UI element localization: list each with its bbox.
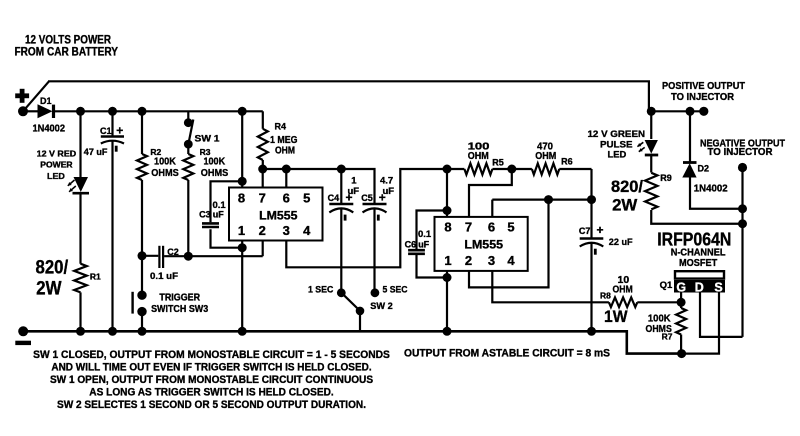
resistor R8: [609, 298, 681, 308]
label C5 + 4.7 uF: [361, 176, 394, 205]
wire C1 to ground: [111, 142, 113, 332]
wire C7 down from timing node: [590, 200, 592, 239]
svg-text:2W: 2W: [36, 277, 62, 299]
resistor R1: [74, 264, 87, 293]
node U2 VCC junction (R5 left): [443, 165, 452, 174]
svg-text:FROM CAR BATTERY: FROM CAR BATTERY: [15, 46, 119, 58]
svg-text:8: 8: [238, 191, 245, 206]
node R2/C2/SW3 junction: [138, 251, 147, 260]
node positive rail junction: [647, 107, 656, 116]
svg-text:C7: C7: [579, 226, 591, 236]
svg-text:R7: R7: [662, 331, 673, 341]
svg-text:LED: LED: [608, 150, 627, 161]
node D2 top junction: [686, 107, 695, 116]
wire U2 pin 1 to ground: [446, 278, 448, 332]
node positive output terminal: [699, 107, 708, 116]
label 100 OHM R5: [468, 140, 504, 167]
wire pin 1 to ground: [241, 248, 243, 332]
transistor Q1 IRFP064N package: [674, 271, 725, 294]
svg-text:8: 8: [444, 220, 451, 235]
label C7 +: [579, 223, 604, 237]
ground minus bar: [15, 341, 31, 345]
resistor R4: [258, 129, 268, 160]
wire pin1 stub U2: [446, 271, 448, 278]
node pin 6 junction: [282, 165, 291, 174]
label 10 OHM R8: [600, 274, 633, 300]
wire C4 to 1 SEC contact: [340, 209, 342, 293]
svg-text:4: 4: [303, 223, 311, 238]
svg-text:SW 2 SELECTES 1 SECOND OR 5 SE: SW 2 SELECTES 1 SECOND OR 5 SECOND OUTPU…: [57, 399, 366, 411]
svg-text:C5: C5: [361, 193, 373, 203]
wire R4 to pin 7 node: [262, 160, 264, 169]
label U1 pin numbers 1 2 3 4: [238, 223, 311, 238]
node battery positive terminal (+): [15, 89, 29, 103]
svg-text:+: +: [116, 124, 123, 138]
svg-text:SWITCH SW3: SWITCH SW3: [151, 304, 208, 315]
node C7 ground junction: [587, 327, 596, 336]
label R4 1 MEG OHM: [270, 122, 298, 157]
label POSITIVE OUTPUT TO INJECTOR: [662, 81, 745, 103]
node input junction: [18, 106, 28, 116]
wire SW1 to R3: [187, 144, 189, 154]
switch SW1: [184, 118, 193, 148]
wire positive output stub: [649, 110, 704, 112]
svg-text:820/: 820/: [611, 178, 643, 196]
svg-text:1: 1: [351, 176, 357, 187]
label U2 pin numbers 1 2 3 4: [444, 253, 515, 268]
node pin8 VCC junction: [238, 107, 247, 116]
node pin 7 junction: [258, 165, 267, 174]
wire R6 down to timing node: [590, 169, 592, 200]
op IC U1 LM555 box: [229, 188, 323, 241]
wire SW3 to ground: [141, 312, 143, 331]
wire main +12V horizontal: [23, 110, 38, 112]
svg-text:uF: uF: [418, 239, 429, 249]
node battery negative terminal: [18, 326, 28, 336]
svg-text:C6: C6: [405, 239, 417, 249]
node R7/source ground junction: [677, 349, 686, 358]
wire C3 bottom loop to pin 1: [211, 229, 243, 247]
svg-text:uF: uF: [348, 186, 360, 197]
node R1 ground junction: [76, 327, 85, 336]
resistor R5: [447, 163, 512, 174]
node pin 1 junction U2: [443, 273, 452, 282]
wire red LED branch down: [79, 111, 81, 177]
wire C2 left lead: [142, 255, 158, 257]
LED red power (12V RED POWER LED): [68, 177, 89, 193]
node R9/negative junction: [738, 219, 747, 228]
svg-text:6: 6: [283, 191, 290, 206]
wire LED to R9: [650, 156, 652, 173]
wire C6 bottom loop to pin 1 of U2: [417, 255, 448, 278]
svg-text:LM555: LM555: [464, 238, 503, 252]
svg-text:TO INJECTOR: TO INJECTOR: [671, 92, 735, 103]
wire negative output line: [741, 168, 743, 337]
svg-text:uF: uF: [383, 186, 395, 197]
svg-text:2: 2: [259, 223, 266, 238]
capacitor C1: [101, 137, 124, 152]
svg-text:R1: R1: [90, 272, 101, 282]
svg-text:OHM: OHM: [275, 144, 295, 156]
svg-text:3: 3: [283, 223, 290, 238]
svg-text:4.7: 4.7: [380, 176, 393, 187]
wire R2 to C2 node: [141, 180, 143, 256]
node C7 top junction: [587, 195, 596, 204]
svg-text:0.1 uF: 0.1 uF: [150, 271, 178, 282]
wire C7 to ground: [590, 243, 592, 331]
svg-text:1 SEC: 1 SEC: [308, 285, 333, 296]
wire source to ground: [682, 292, 719, 354]
wire C6 top loop: [417, 211, 448, 250]
LED green pulse (12 V GREEN PULSE LED): [637, 140, 658, 155]
label U2 pin numbers 8 7 6 5: [444, 220, 514, 235]
svg-text:100K: 100K: [154, 155, 176, 167]
node pin 1 junction U1: [238, 243, 247, 252]
svg-text:6: 6: [488, 220, 495, 235]
label NEGATIVE OUTPUT TO INJECTOR: [700, 138, 785, 158]
node C4 top junction: [337, 165, 346, 174]
wire VCC down to pin 8 of U1: [241, 111, 243, 187]
diode D2: [682, 163, 696, 178]
svg-text:IRFP064N: IRFP064N: [657, 228, 731, 249]
wire R4 branch from rail: [262, 111, 264, 129]
label SW notes text block: [33, 349, 390, 411]
node SW3 ground junction: [138, 327, 147, 336]
label 12 V GREEN PULSE LED: [588, 129, 646, 161]
wire diagonal from + node to top rail: [23, 81, 49, 111]
svg-text:Q1: Q1: [660, 280, 673, 291]
svg-text:5: 5: [507, 220, 514, 235]
svg-text:R4: R4: [275, 122, 287, 132]
svg-text:SW 1: SW 1: [195, 134, 221, 145]
wire C4 top lead: [340, 169, 342, 204]
wire pin 2 of U2 loop to pin 6 node: [469, 200, 549, 288]
node pin 8 / C3 junction: [238, 177, 247, 186]
node LED branch junction: [76, 107, 85, 116]
svg-text:D1: D1: [40, 96, 52, 106]
wire pin 1 of U1 stub: [241, 241, 243, 248]
label 820/ 2W (R9): [611, 178, 643, 215]
wire LED to R1: [79, 195, 81, 264]
wire green LED branch down: [650, 111, 652, 139]
svg-text:TRIGGER: TRIGGER: [159, 292, 200, 303]
node negative output terminal: [738, 163, 747, 172]
wire pin 6 of U1 up: [285, 169, 287, 188]
svg-text:1: 1: [444, 253, 451, 268]
svg-text:R6: R6: [561, 156, 573, 166]
capacitor C7: [580, 239, 604, 255]
svg-text:820/: 820/: [36, 257, 69, 279]
svg-text:12 VOLTS POWER: 12 VOLTS POWER: [25, 35, 112, 47]
node C1 branch junction: [108, 107, 117, 116]
svg-text:uF: uF: [213, 210, 224, 220]
svg-text:OHMS: OHMS: [151, 167, 179, 179]
label C1 +: [100, 124, 123, 138]
svg-text:12 V GREEN: 12 V GREEN: [588, 129, 646, 140]
svg-text:POWER: POWER: [40, 160, 72, 170]
wire pin 7 of U2 from R5/R6 junction: [469, 169, 512, 217]
capacitor C3: [202, 223, 219, 227]
wire C2 right to pin2 node: [164, 255, 263, 257]
wire R2 branch down: [141, 111, 143, 154]
svg-text:R8: R8: [600, 290, 611, 300]
wire +12V top rail: [48, 81, 649, 111]
wire D2 to negative line: [690, 177, 743, 209]
wire R9 to negative line: [651, 210, 742, 224]
svg-text:LED: LED: [47, 171, 65, 181]
capacitor C5: [363, 204, 387, 221]
switch SW 2 (1 SEC / 5 SEC select): [337, 288, 379, 315]
label C4 + 1 uF: [328, 176, 360, 205]
wire C3 top loop: [211, 181, 243, 222]
svg-text:1N4002: 1N4002: [33, 122, 66, 134]
svg-text:47 uF: 47 uF: [84, 147, 108, 157]
wire pin 7 of U1 up: [262, 169, 264, 188]
svg-text:SW 2: SW 2: [370, 301, 393, 312]
wire SW1 branch down from rail: [187, 111, 189, 122]
node C1 ground junction: [108, 327, 117, 336]
wire R7 to ground node: [680, 335, 682, 354]
label 0.1 C6 uF: [405, 229, 432, 249]
node pin6 link junction: [544, 195, 553, 204]
svg-text:OHM: OHM: [535, 150, 556, 162]
wire R3 to trigger node: [187, 180, 189, 256]
switch SW3 (trigger pushbutton): [133, 291, 147, 317]
wire gate stub: [680, 292, 682, 302]
resistor R7: [676, 308, 686, 335]
label 100K OHMS R7: [646, 313, 673, 342]
svg-text:2W: 2W: [612, 197, 638, 215]
wire gate to R7: [680, 302, 682, 308]
svg-text:POSITIVE OUTPUT: POSITIVE OUTPUT: [662, 81, 745, 92]
wire ground rail: [23, 331, 681, 353]
node R2 branch junction: [138, 107, 147, 116]
wire main +12V bus after D1: [54, 110, 263, 112]
svg-text:1W: 1W: [604, 307, 628, 326]
svg-text:7: 7: [465, 220, 472, 235]
svg-text:C4: C4: [328, 193, 340, 203]
wire C1 branch down: [111, 111, 113, 136]
label 0.1 C3 uF: [199, 200, 226, 219]
svg-text:SW 1 OPEN, OUTPUT FROM MONOSTA: SW 1 OPEN, OUTPUT FROM MONOSTABLE CIRCUI…: [50, 374, 373, 386]
svg-text:R9: R9: [660, 173, 672, 183]
svg-text:AS LONG AS TRIGGER SWITCH IS H: AS LONG AS TRIGGER SWITCH IS HELD CLOSED…: [89, 386, 333, 398]
label IRFP064N N-CHANNEL MOSFET: [657, 228, 731, 269]
svg-text:C3: C3: [199, 210, 211, 220]
resistor R9: [645, 173, 657, 210]
node D2/negative junction: [738, 204, 747, 213]
svg-text:5 SEC: 5 SEC: [383, 285, 408, 296]
label 820/ 2W (R1): [36, 257, 69, 300]
resistor R3: [183, 154, 193, 180]
wire pin 3 of U2 output to R8: [492, 271, 609, 302]
node R5/R6 junction: [507, 165, 516, 174]
wire timing node to pin6 link: [549, 199, 592, 201]
wire D2 branch down: [689, 111, 691, 162]
label TRIGGER SWITCH SW3: [151, 292, 208, 315]
node R3 bottom junction: [184, 252, 193, 261]
svg-text:R5: R5: [492, 157, 504, 167]
svg-text:4: 4: [507, 253, 515, 268]
svg-text:5: 5: [303, 191, 310, 206]
svg-text:AND WILL TIME OUT EVEN IF TRIG: AND WILL TIME OUT EVEN IF TRIGGER SWITCH…: [51, 362, 371, 374]
svg-text:C1: C1: [100, 126, 112, 136]
node pin8/C6 junction U2: [443, 206, 452, 215]
label 470 OHM R6: [535, 141, 572, 167]
capacitor C6: [408, 250, 425, 254]
label 12 VOLTS POWER FROM CAR BATTERY: [15, 35, 119, 59]
node gate junction: [677, 298, 686, 307]
svg-text:12 V RED: 12 V RED: [37, 148, 77, 158]
label U1 pin numbers 8 7 6 5: [238, 191, 311, 206]
svg-text:0.1: 0.1: [418, 229, 432, 240]
svg-text:3: 3: [488, 253, 495, 268]
svg-text:100K: 100K: [204, 155, 226, 167]
capacitor C2: [159, 246, 163, 268]
wire C5 to 5 SEC contact: [373, 209, 375, 293]
svg-text:SW 1 CLOSED, OUTPUT FROM MONOS: SW 1 CLOSED, OUTPUT FROM MONOSTABLE CIRC…: [33, 349, 390, 361]
svg-text:LM555: LM555: [259, 208, 298, 222]
svg-text:D2: D2: [698, 163, 710, 173]
wire pin 3 output of U1 to second stage VCC: [286, 169, 447, 267]
label 12 V RED POWER LED: [37, 148, 77, 181]
resistor R2: [137, 154, 147, 180]
svg-text:7: 7: [259, 191, 266, 206]
wire pin 6 of U2 up to timing node: [491, 200, 493, 217]
capacitor C4: [329, 204, 353, 221]
wire trigger line up to pin 2: [262, 241, 264, 257]
svg-text:2: 2: [465, 253, 472, 268]
wire R1 to ground: [79, 292, 81, 331]
svg-text:1N4002: 1N4002: [694, 182, 728, 194]
label R3 100K OHMS: [200, 147, 229, 179]
wire drain to negative line: [700, 292, 743, 337]
wire timing bus R4/pin7/pin6/C4/C5: [263, 169, 375, 204]
svg-text:TO INJECTOR: TO INJECTOR: [708, 147, 774, 158]
op IC U2 LM555 box: [435, 217, 528, 271]
svg-text:OHM: OHM: [468, 150, 489, 162]
wire U2 VCC down to pin 8: [446, 169, 448, 217]
svg-text:OHMS: OHMS: [201, 167, 229, 179]
node U1 pin1 ground junction: [238, 327, 247, 336]
svg-text:MOSFET: MOSFET: [679, 258, 717, 269]
svg-text:OUTPUT FROM ASTABLE CIRCUIT =: OUTPUT FROM ASTABLE CIRCUIT = 8 mS: [404, 348, 610, 360]
diode D1: [38, 104, 54, 118]
svg-text:1: 1: [238, 223, 245, 238]
wire SW2 to ground: [359, 311, 361, 331]
svg-text:OHM: OHM: [613, 283, 633, 295]
svg-text:+: +: [597, 223, 604, 237]
resistor R6: [512, 163, 592, 174]
svg-text:22 uF: 22 uF: [609, 237, 633, 248]
wire SW3 branch from C2 node: [141, 256, 143, 295]
node U2 pin1 ground junction: [443, 327, 452, 336]
label R2 100K OHMS: [150, 147, 178, 179]
